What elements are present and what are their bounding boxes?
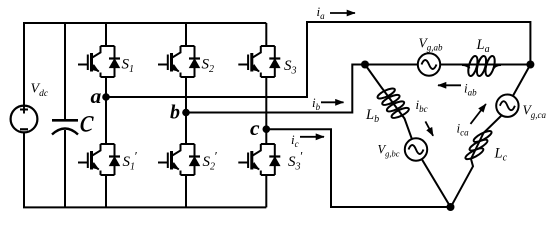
node: delta vertex a (top-right) xyxy=(526,61,534,69)
wire: DC bus outer rectangle (top rail, bottom rail, left rail with gap for source) xyxy=(24,23,266,207)
current arrow ica xyxy=(471,104,486,124)
svg-text:La: La xyxy=(476,37,490,55)
transistor S2 (IGBT + diode) xyxy=(158,46,200,77)
svg-text:ic: ic xyxy=(291,132,299,149)
inductor La xyxy=(462,55,501,77)
svg-text:Lb: Lb xyxy=(365,107,379,125)
svg-text:S2′: S2′ xyxy=(203,150,218,173)
wire: leg 1 vertical xyxy=(105,23,107,207)
transistor S1 (IGBT + diode) xyxy=(78,46,120,77)
node c xyxy=(263,125,271,133)
node: delta vertex ab (top-left) xyxy=(361,61,369,69)
wire: capacitor branch xyxy=(64,23,66,207)
svg-text:c: c xyxy=(250,116,260,140)
wire: delta left side xyxy=(365,65,451,208)
svg-text:ib: ib xyxy=(312,95,321,112)
wire: phase b output xyxy=(186,65,365,113)
transistor S2' (IGBT + diode) xyxy=(158,144,200,175)
capacitor C xyxy=(52,120,78,134)
svg-text:c: c xyxy=(80,104,95,140)
svg-text:Lc: Lc xyxy=(494,146,508,164)
svg-text:Vdc: Vdc xyxy=(31,82,49,100)
wire: phase c output xyxy=(266,129,450,207)
svg-text:S3: S3 xyxy=(284,58,297,77)
svg-text:a: a xyxy=(91,84,102,108)
wire: delta right side xyxy=(451,65,531,207)
current arrow ic xyxy=(300,136,324,138)
transistor S3' (IGBT + diode) xyxy=(238,144,280,175)
node a xyxy=(102,93,110,101)
svg-text:ia: ia xyxy=(317,4,326,21)
svg-text:S1: S1 xyxy=(122,57,135,76)
wire: phase a output xyxy=(106,22,530,97)
source vg,ab xyxy=(418,53,440,75)
current arrow ia xyxy=(330,12,355,14)
wire: delta top side xyxy=(365,64,530,66)
inductor Lb xyxy=(376,87,410,120)
current arrow iab xyxy=(438,84,461,86)
source vg,bc xyxy=(405,138,427,160)
svg-text:b: b xyxy=(170,102,180,124)
current arrow ib xyxy=(321,101,344,103)
current arrow ibc xyxy=(425,121,433,135)
svg-text:ibc: ibc xyxy=(416,97,428,114)
svg-text:ica: ica xyxy=(457,121,470,138)
svg-text:Vg,bc: Vg,bc xyxy=(378,143,400,159)
voltage source Vdc xyxy=(11,106,38,133)
node: delta vertex bottom xyxy=(447,203,455,211)
source vg,ca xyxy=(496,95,518,117)
svg-text:S1′: S1′ xyxy=(123,150,138,173)
svg-text:Vg,ca: Vg,ca xyxy=(523,103,547,121)
svg-text:iab: iab xyxy=(464,81,477,98)
svg-text:Vg,ab: Vg,ab xyxy=(419,36,444,53)
node b xyxy=(182,109,190,117)
transistor S3 (IGBT + diode) xyxy=(238,46,280,77)
inductor Lc xyxy=(464,129,493,161)
svg-text:S3′: S3′ xyxy=(288,150,303,173)
wire: leg 3 vertical xyxy=(265,23,267,207)
transistor S1' (IGBT + diode) xyxy=(78,144,120,175)
wire: leg 2 vertical xyxy=(185,23,187,207)
svg-text:S2: S2 xyxy=(202,57,215,76)
